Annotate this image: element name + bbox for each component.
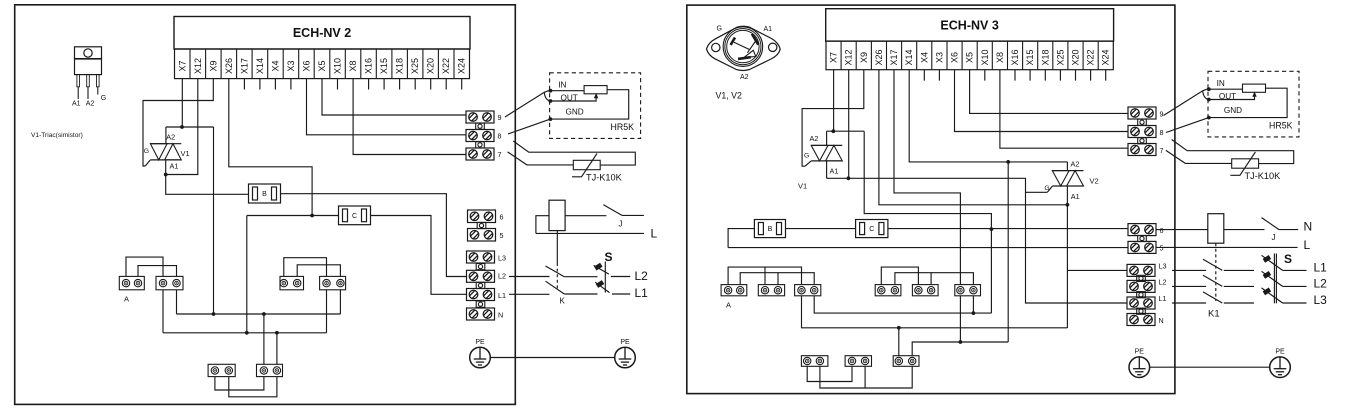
terminal block 8 (left panel) [466,130,494,142]
terminal block A-r3 [795,285,821,296]
wire K1 pole1 out [1224,269,1254,271]
wire terminal 8/7 upper diagonal to thermistor loop [513,141,635,165]
switch S pole1 blade [594,265,609,274]
svg-text:X7: X7 [177,60,187,71]
terminal block A-r4 [875,285,901,296]
svg-text:V1, V2: V1, V2 [716,91,743,101]
svg-text:9: 9 [498,113,502,122]
switch S pole1 blade (right) [1262,255,1283,270]
svg-text:A2: A2 [740,74,749,81]
jumper below bottom blocks ra-rc [820,366,912,388]
svg-text:K1: K1 [1208,309,1220,320]
wire coil right to switch J [565,215,606,217]
svg-text:B: B [262,191,267,198]
svg-text:L1: L1 [635,286,649,300]
svg-text:L2: L2 [498,272,506,281]
terminal block N (right panel) [1127,314,1155,326]
svg-text:X17: X17 [239,58,249,74]
wire X12 down to A1 node [166,79,198,175]
terminal block 9 (left panel) [466,111,494,123]
wire terminal 9 diagonal to IN/OUT [505,91,549,117]
wire X7 to V1 A2 node (right) [833,70,835,132]
relay coil J (left panel) [549,200,565,230]
wire OUT line with wiper arrow [550,96,596,101]
svg-text:X24: X24 [457,58,467,74]
wire terminal 8 diagonal to GND [508,119,550,134]
node bus1 dot at A2 descender [212,312,216,316]
svg-text:IN: IN [558,81,566,90]
wire b6.s1 riser to rail4 [959,296,961,342]
svg-text:7: 7 [1160,146,1164,155]
terminal block 5 (left panel) [468,229,496,242]
svg-text:L2: L2 [1314,277,1328,291]
bottom terminal block r-b [845,356,871,367]
svg-text:L2: L2 [1159,277,1167,286]
wire X26 down-right to C-left chain [229,79,312,216]
wire X5 to terminal 9 (right) [970,70,1128,114]
wire X9 to gate loop [143,79,213,166]
switch S pole2 blob (right) [1263,271,1272,279]
svg-text:J: J [1272,233,1276,242]
node GND dot [549,117,553,121]
svg-text:X6: X6 [301,60,311,71]
switch S pole2 blade [595,282,609,292]
switch K pole2 blade [546,281,565,294]
TO-220 package drawing (V1 triac) [75,47,102,99]
svg-text:TJ-K10K: TJ-K10K [1245,171,1282,181]
wire X8 to terminal 7 (right) [1000,70,1128,149]
wire B right to terminal L2 [281,194,467,277]
svg-text:X9: X9 [859,52,869,63]
svg-text:X12: X12 [193,58,203,74]
terminal block 5 (right panel) [1128,241,1156,253]
wire OUT line with wiper arrow (right) [1209,94,1255,99]
svg-text:ECH-NV 3: ECH-NV 3 [940,19,998,33]
terminal block 8 (right panel) [1128,126,1156,138]
wire K1 pole3 out [1224,302,1254,304]
jumper link L1-N (right) [1137,308,1146,314]
svg-text:TJ-K10K: TJ-K10K [586,173,623,183]
jumper wire below bottom blocks s1 [215,377,264,390]
wire V1 A2 descender to C net [864,131,991,313]
wire pot right side down to GND (right) [1209,88,1287,117]
switch K1 pole2 blade [1203,275,1222,286]
svg-text:IN: IN [1217,79,1225,88]
bottom terminal block r-a [801,356,828,367]
node IN dot [549,89,553,93]
wire S pole3 out (right) [1283,302,1307,304]
svg-text:5: 5 [500,231,504,240]
node bus2 dot at C-chain [245,331,249,335]
wire S pole1 out (right) [1283,269,1307,271]
terminal block A-r5 [912,285,938,296]
wire PE to PE [490,357,614,359]
jumper link 6-5 [477,222,486,228]
svg-text:X3: X3 [934,52,944,63]
switch K1 pole3 blade [1203,292,1222,303]
wire K pole2 out [564,293,597,295]
svg-text:X20: X20 [426,58,436,74]
svg-text:X14: X14 [904,49,914,65]
wire A2 lead of V2 [1066,162,1068,171]
svg-text:V2: V2 [1090,177,1099,186]
svg-text:PE: PE [1135,349,1145,356]
node V1 A2 junction dot [180,125,184,129]
component C holder (right) [856,220,888,238]
wire 5 line to L (right) [1156,246,1298,248]
jumper link L3-L2 (right) [1137,275,1146,281]
wire bus1 down to bottom block screw [263,314,265,364]
jumper link 6-5 (right) [1138,235,1147,241]
wire bus2 right riser to block A2b [326,290,328,333]
wire IN line (right) [1209,88,1243,90]
wire A2 node horizontal [166,126,214,128]
svg-text:PE: PE [475,339,485,346]
svg-text:HR5K: HR5K [1269,121,1293,131]
svg-text:X25: X25 [410,58,420,74]
wire rail2 b3.s2 to V1A2/C net [814,296,991,313]
wire terminal 9 diagonal to IN/OUT (right) [1164,89,1207,115]
switch K1 pole1 blade [1203,259,1222,270]
node bus1 dot at bottom-block feed [262,312,266,316]
terminal block L2 (left panel) [467,270,495,282]
svg-text:X5: X5 [965,52,975,63]
terminal block A1b [156,276,183,289]
svg-text:A1: A1 [1071,192,1080,201]
switch S link vertical [604,262,606,293]
svg-text:A: A [726,301,731,310]
wire pot right side down to GND [550,90,628,119]
switch J blade [603,205,622,216]
wire K1 pole2 out [1224,285,1254,287]
svg-text:C: C [352,213,357,220]
svg-text:C: C [869,226,874,233]
wire X12 to A1 line (right) [848,70,850,179]
jumper link L3-L2 [476,264,485,270]
terminal block A1a [119,276,144,289]
node A1 line dot (right) [847,176,851,180]
dashed enclosure HR5K (right) [1208,71,1299,137]
wiper arrowhead [594,93,598,98]
PE earth symbol inside left panel [470,339,491,368]
svg-text:X9: X9 [208,60,218,71]
jumper rail b5-b6 (right) [931,273,973,285]
svg-text:V1-Triac(simistor): V1-Triac(simistor) [31,132,83,139]
svg-text:B: B [768,226,773,233]
svg-text:8: 8 [1160,128,1164,137]
wire X7 to V1 A2 node [181,79,183,127]
wire A2 lead of right V1 [826,131,828,145]
svg-text:L3: L3 [1159,261,1167,270]
wire hook to OUT (right) [1203,91,1209,100]
svg-text:X15: X15 [1025,49,1035,65]
wire V2 A1 descender to rail3 [1066,205,1068,328]
jumper link L2-L1 [476,282,485,288]
svg-text:L3: L3 [498,253,506,262]
svg-text:X7: X7 [829,52,839,63]
wire L line [536,232,644,234]
svg-text:L3: L3 [1314,293,1328,307]
svg-text:OUT: OUT [1219,92,1236,101]
svg-text:X12: X12 [844,49,854,65]
svg-text:X14: X14 [255,58,265,74]
jumper rail s1 group2 (right) [881,267,918,285]
wire PE to PE (right) [1150,366,1270,368]
wire A1 node down and right to B [166,175,249,195]
jumper wires above blocks A1a-A1b [126,257,163,276]
bottom terminal block L-b [257,364,283,376]
wire B left down to bus5 [728,229,754,248]
wire gate diagonal of V2 [1047,186,1052,192]
svg-text:L2: L2 [635,269,649,283]
wire gate diagonal of V1 [145,160,150,166]
terminal block 6 (left panel) [468,210,496,223]
svg-text:8: 8 [498,132,502,141]
node rail4 dot at b6.s1 [959,340,963,344]
svg-text:X20: X20 [1070,49,1080,65]
wire X26 to V2 A1 line [879,70,1068,205]
wire after switch J [622,214,644,216]
terminal block L1 (right panel) [1127,297,1155,309]
wire after switch J to N (right) [1279,229,1298,231]
svg-text:ECH-NV 2: ECH-NV 2 [293,26,351,40]
switch S pole1 blob (right) [1263,255,1272,263]
bottom terminal block L-a [208,364,235,376]
switch S pole2 blob [596,280,605,288]
wire X6 to terminal 8 (right) [955,70,1129,132]
ECH-NV 3 terminal strip [826,41,1113,70]
wire hook to OUT [544,92,550,101]
relay coil J (right panel) [1208,214,1224,244]
wire L2 block to switch K [509,276,550,278]
bottom terminal block r-c [893,356,919,367]
svg-text:GND: GND [566,108,584,117]
svg-text:L: L [651,227,658,241]
wire bus1 left riser to block A1b [176,290,178,314]
svg-text:N: N [1159,316,1164,325]
wire C-left chain down to bus2 [246,216,248,333]
svg-text:X18: X18 [395,58,405,74]
terminal block L1 (left panel) [467,289,495,301]
svg-text:A2: A2 [86,101,95,108]
svg-text:X10: X10 [980,49,990,65]
wire A2 node horizontal (right V1) [827,130,865,132]
wire bus2 down to bottom block screw [276,333,278,365]
node rail3 dot to bottom block [897,326,901,330]
wire A2 lead of V1 [165,127,167,144]
thermistor TJ-K10K body [573,160,600,169]
svg-text:A1: A1 [830,167,839,176]
svg-text:6: 6 [500,213,504,222]
svg-text:X4: X4 [919,52,929,63]
wire bus2 left riser to block A1b [162,290,164,333]
wire X14 to V2 A2 line [909,70,1067,162]
svg-text:X16: X16 [364,58,374,74]
svg-text:S: S [1284,252,1292,266]
svg-text:GND: GND [1224,106,1242,115]
left panel border [15,5,516,405]
wire bus2 horizontal [163,332,327,334]
svg-text:X22: X22 [1086,49,1096,65]
jumper wires above blocks A2a-A2b [284,258,327,277]
thermistor strike line (right) [1230,152,1255,175]
jumper link 9-8 [476,123,485,129]
jumper link L1-N [476,301,485,307]
svg-text:PE: PE [1275,349,1285,356]
wire A1 lead of V2 to A1 node [1066,186,1068,205]
wire L1 block to switch K pole2 [509,293,550,295]
wire C right to terminal 6 (right) [888,228,1128,230]
stub wires from unused right-strip terminals [924,70,1105,81]
ECH-NV 3 controller box [826,9,1114,41]
svg-text:G: G [144,148,149,155]
PE earth symbol outside left panel [615,339,636,368]
terminal block A-r6 [955,285,981,296]
jumper wire below bottom blocks s2 [229,377,277,397]
jumper rail s2 group2 (right) [895,273,931,285]
wire L1 block to K1 pole3 [1172,302,1206,304]
switch K pole1 blade [546,266,565,277]
wire bus1 horizontal [177,313,341,315]
wiper arrowhead (right) [1252,92,1256,97]
jumper link 8-7 (right) [1138,138,1147,144]
wire coil plunger down [556,231,558,263]
potentiometer HR5K body (right) [1243,84,1266,92]
svg-text:K: K [560,297,566,306]
dashed link coil to K1 [1215,243,1217,301]
svg-text:X3: X3 [286,60,296,71]
svg-text:G: G [717,26,722,33]
node V2 A1 dot [1066,203,1070,207]
wire b6.s2 riser [972,296,974,313]
wire V2 A1 branch to L3 block [1067,269,1127,271]
svg-text:V1: V1 [181,149,190,158]
PE earth symbol inside right panel [1129,349,1150,378]
svg-text:X6: X6 [950,52,960,63]
jumper link L2-L1 (right) [1137,292,1146,298]
node IN dot (right) [1207,87,1211,91]
stub wires from unused left-strip terminals [244,79,461,90]
jumper rail s2 group1 (right) [740,273,814,285]
triac V2 (right panel) [1052,171,1083,186]
svg-text:X24: X24 [1101,49,1111,65]
terminal block L2 (right panel) [1127,280,1155,292]
terminal block L3 (left panel) [467,251,495,263]
potentiometer HR5K body [584,86,607,94]
component B holder (right) [754,220,785,238]
svg-text:X5: X5 [317,60,327,71]
svg-text:X16: X16 [1010,49,1020,65]
svg-text:G: G [804,153,809,160]
triac V1 (right panel) [811,145,842,161]
svg-text:N: N [1304,220,1313,234]
wire bus5 to terminal 5 (right) [728,247,1128,249]
wire lower diagonal to thermistor (right) [1166,150,1232,163]
svg-text:HR5K: HR5K [611,122,635,132]
wire C-left chain horizontal [247,215,339,217]
wire X6 to terminal 8 [307,79,467,135]
wire L2 block to K1 pole2 [1172,285,1206,287]
svg-text:J: J [619,220,623,229]
wire A2 node descending to bus1 [213,127,215,314]
wire S pole2 out [612,293,630,295]
terminal block 6 (right panel) [1128,224,1156,236]
wire bus1 right riser to block A2b [339,290,341,314]
terminal block A2b [320,276,346,289]
wire coil to switch J (right) [1224,229,1265,231]
svg-text:X17: X17 [889,49,899,65]
svg-text:A1: A1 [764,26,773,33]
svg-text:A2: A2 [810,134,819,143]
svg-text:G: G [1044,185,1049,192]
wire A1 lead of V1 [165,160,167,175]
switch S pole2 blade (right) [1262,271,1283,286]
PE earth symbol outside right panel [1270,349,1291,378]
svg-text:A2: A2 [166,133,175,142]
terminal block N (left panel) [467,308,495,320]
svg-text:PE: PE [620,339,630,346]
terminal block A-r2 [758,285,784,296]
svg-text:X25: X25 [1055,49,1065,65]
wire rail3 down to bottom block b9.s1 [898,328,900,356]
wire terminal 7 lower diagonal to thermistor [508,152,574,165]
node V1 A2 dot (right) [831,129,835,133]
svg-text:X22: X22 [441,58,451,74]
svg-text:L: L [1304,238,1311,252]
wire X17 down to block b6 [894,70,960,285]
wire K pole1 out [564,276,597,278]
svg-text:A1: A1 [72,101,81,108]
svg-text:A2: A2 [1071,160,1080,169]
terminal block L3 (right panel) [1127,264,1155,276]
dashed enclosure HR5K [550,73,641,139]
svg-text:5: 5 [1160,244,1164,253]
svg-text:V1: V1 [798,182,807,191]
wire C right to terminal L1 [371,216,467,295]
wire rail4 from b9.s2 to V2A2 descender [912,342,1008,356]
wire IN line [550,90,584,92]
wire 6 line to coil (right) [1156,229,1208,231]
svg-text:A1: A1 [170,162,179,171]
node V1 A1 junction dot [164,173,168,177]
triac V1 (left panel) [150,144,181,160]
TO-3 package drawing (V1,V2) [707,26,781,70]
svg-text:A: A [124,295,129,304]
svg-text:X26: X26 [874,49,884,65]
switch S pole3 blade (right) [1262,288,1283,303]
terminal block 9 (right panel) [1128,107,1156,119]
switch S pole3 blob (right) [1263,288,1272,296]
wire X5 to terminal 9 [322,79,466,115]
svg-text:X8: X8 [995,52,1005,63]
component C holder [339,206,371,225]
wire upper diagonal to thermistor loop (right) [1172,140,1294,164]
svg-text:X10: X10 [333,58,343,74]
jumper link 9-8 (right) [1138,119,1147,125]
wire X9 to gate loop (right) [802,70,864,167]
wire B to C [786,228,856,230]
wire gate diagonal of right V1 [805,161,811,166]
riser rb.s2 to jumper [864,366,866,388]
svg-text:L1: L1 [1314,261,1328,275]
wire A1 lead of right V1 [826,161,828,178]
wire L3 block to K1 pole1 [1172,269,1206,271]
svg-text:S: S [605,250,613,264]
node bus2 dot at bottom-block feed [275,331,279,335]
jumper link 8-7 [476,142,485,148]
svg-text:9: 9 [1160,109,1164,118]
thermistor strike line [572,154,597,177]
